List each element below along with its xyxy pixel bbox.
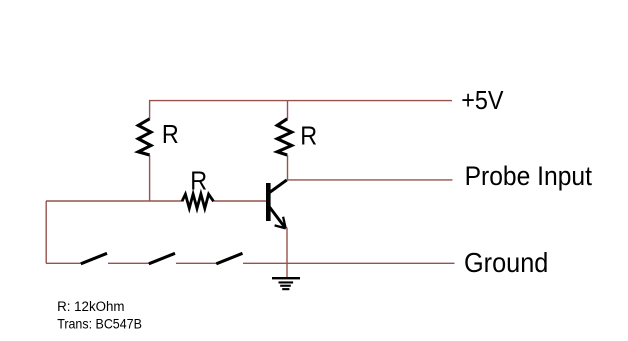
svg-text:Ground: Ground — [464, 247, 548, 278]
wire bottom segment 4 to Ground label — [243, 262, 455, 264]
wire right resistor branch upper — [287, 100, 289, 119]
ground symbol — [272, 277, 300, 290]
transistor Q1 emitter arrow barb lower — [275, 225, 286, 228]
wire probe input line — [287, 179, 453, 181]
wire base line left segment — [46, 200, 182, 202]
transistor Q1 emitter lead — [270, 207, 286, 228]
svg-text:R: R — [162, 121, 179, 149]
svg-text:+5V: +5V — [461, 87, 504, 115]
wire top +5V rail — [149, 100, 452, 102]
wire right resistor branch lower — [287, 155, 289, 180]
switch S3 — [216, 253, 242, 263]
wire left resistor branch lower — [149, 155, 151, 201]
wire base line right segment — [214, 200, 267, 202]
resistor R3 (horizontal, base) — [182, 194, 214, 208]
svg-text:R: R — [190, 168, 207, 196]
switch S1 — [81, 253, 107, 263]
wire bottom segment 2 — [108, 262, 149, 264]
transistor Q1 emitter arrow barb upper — [283, 217, 286, 229]
transistor Q1 base bar — [266, 183, 271, 221]
wire emitter to ground — [286, 228, 288, 278]
svg-text:Trans: BC547B: Trans: BC547B — [57, 316, 142, 332]
resistor R2 (right vertical, collector load) — [277, 119, 292, 155]
wire left vertical — [45, 201, 47, 263]
switch S2 — [149, 253, 175, 263]
wire bottom segment 1 — [46, 262, 81, 264]
resistor R1 (left vertical) — [138, 119, 151, 155]
svg-text:R: 12kOhm: R: 12kOhm — [57, 299, 124, 314]
svg-text:Probe Input: Probe Input — [465, 162, 593, 191]
wire left resistor branch upper — [149, 100, 151, 119]
wire bottom segment 3 — [176, 262, 217, 264]
svg-text:R: R — [300, 122, 317, 150]
transistor Q1 collector lead — [270, 180, 287, 193]
